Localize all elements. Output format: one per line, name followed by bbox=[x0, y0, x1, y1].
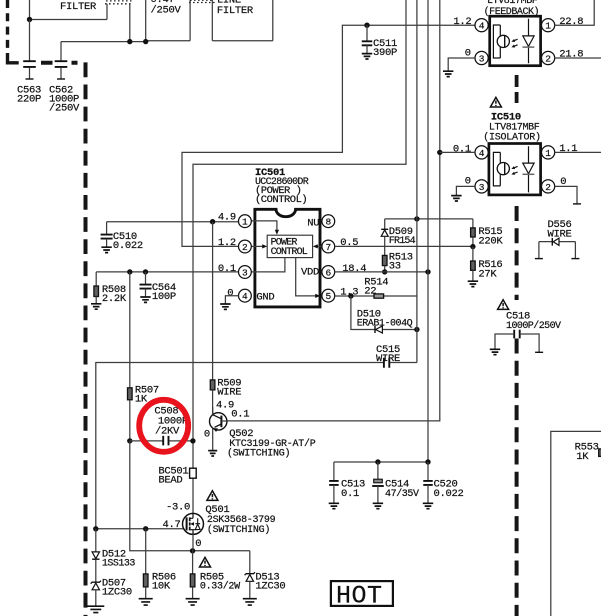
svg-text:0.022: 0.022 bbox=[113, 240, 143, 252]
svg-text:22: 22 bbox=[364, 285, 376, 297]
resistor R515 bbox=[472, 219, 474, 228]
isolation barrier dashed line (top left vertical) bbox=[6, 0, 9, 50]
svg-text:4: 4 bbox=[479, 21, 485, 32]
svg-text:(ISOLATOR): (ISOLATOR) bbox=[483, 132, 541, 144]
svg-text:0.1: 0.1 bbox=[453, 143, 471, 155]
isolation barrier corner piece bbox=[8, 53, 19, 63]
capacitor C564 bbox=[145, 272, 147, 285]
svg-text:0.1: 0.1 bbox=[231, 408, 249, 420]
svg-text:3: 3 bbox=[242, 267, 248, 278]
ground C518 bbox=[490, 349, 500, 354]
svg-text:1.2: 1.2 bbox=[453, 16, 471, 28]
wire opto pin2 to right edge bbox=[555, 57, 601, 59]
pin 7 IC501 bbox=[322, 240, 335, 253]
junction dot R515/R516 (pin7 node) bbox=[470, 244, 475, 249]
warning triangle C518 bbox=[498, 300, 509, 310]
svg-text:0: 0 bbox=[195, 538, 201, 550]
ground C513 bbox=[329, 503, 339, 508]
inner wire pin2 arrow into block bbox=[251, 245, 263, 247]
wire IC501 pin1 net horizontal bbox=[107, 221, 239, 223]
svg-text:0.022: 0.022 bbox=[434, 488, 464, 500]
junction dot gate net R506 bbox=[143, 526, 148, 531]
junction dot bus4 at IC510 pin4 bbox=[437, 150, 442, 155]
svg-text:27K: 27K bbox=[478, 269, 497, 281]
wire gate net horizontal bbox=[96, 528, 187, 530]
svg-text:/2KV: /2KV bbox=[155, 426, 180, 438]
capacitor C513 bbox=[333, 462, 335, 481]
transistor Q502 (NPN switching) bbox=[210, 413, 227, 430]
ground R516 bbox=[468, 281, 478, 286]
wire pin1 net down to R509 bbox=[212, 222, 214, 380]
isolation barrier dashed line (below C518) bbox=[515, 339, 519, 616]
zener diode D513 bbox=[249, 551, 251, 574]
isolation barrier dashed line (horizontal jog) bbox=[41, 61, 78, 65]
ground C520 bbox=[423, 503, 433, 508]
wire IC501 pin3 net horizontal bbox=[96, 271, 238, 273]
pin 3 opto feedback bbox=[475, 51, 488, 64]
svg-text:2: 2 bbox=[545, 182, 551, 193]
warning triangle R505 bbox=[200, 557, 211, 567]
capacitor C562 (Y-cap) bbox=[60, 42, 62, 62]
svg-text:(CONTROL): (CONTROL) bbox=[255, 194, 307, 206]
optocoupler IC (FEEDBACK) body bbox=[490, 16, 541, 65]
wire secondary sense node y462 bbox=[334, 461, 428, 463]
transistor Q501 (MOSFET switching) bbox=[183, 513, 204, 534]
wire bus1 lower segment to Q501 drain bbox=[192, 441, 194, 514]
svg-text:0.1: 0.1 bbox=[218, 263, 236, 275]
svg-text:1SS133: 1SS133 bbox=[102, 559, 136, 570]
coil (dotted) top left bbox=[105, 1, 133, 4]
junction dot C508 right bbox=[190, 438, 195, 443]
svg-text:1.2: 1.2 bbox=[218, 237, 236, 249]
resistor R553 (cut at edge) bbox=[599, 449, 601, 457]
svg-text:ERAB1-004Q: ERAB1-004Q bbox=[357, 319, 413, 330]
wire from line filter to opto feedback pin4 (node A) bbox=[182, 25, 475, 246]
resistor R507 bbox=[128, 388, 133, 400]
pin 6 IC501 bbox=[322, 266, 335, 279]
capacitor C520 bbox=[427, 462, 429, 481]
pin 4 opto feedback bbox=[475, 19, 488, 32]
phototransistor inside (IC510) bbox=[493, 152, 500, 186]
wire opto pin3 to ground bbox=[448, 58, 475, 71]
pin 8 IC501 bbox=[322, 215, 335, 228]
junction dot C514 bbox=[375, 459, 380, 464]
resistor R516 bbox=[472, 247, 474, 261]
capacitor C515 (horizontal plates) bbox=[384, 358, 389, 368]
capacitor box 0.47/250V (cut off at top) bbox=[146, 0, 190, 41]
pin 2 IC501 bbox=[239, 240, 252, 253]
resistor R505 bbox=[192, 551, 194, 574]
svg-text:3: 3 bbox=[479, 182, 485, 193]
resistor R514 (horizontal) bbox=[374, 294, 384, 298]
capacitor C518 (Y-cap horizontal) bbox=[514, 330, 520, 339]
LED inside (FEEDBACK) bbox=[528, 19, 530, 63]
svg-text:220P: 220P bbox=[17, 93, 41, 105]
light arrows (IC510) bbox=[514, 166, 518, 173]
wire Q501 source down bbox=[192, 534, 194, 551]
svg-text:1: 1 bbox=[242, 217, 248, 228]
svg-text:HOT: HOT bbox=[336, 581, 383, 610]
svg-text:-3.0: -3.0 bbox=[166, 502, 190, 514]
junction dot AC node at cap box bbox=[143, 39, 148, 44]
junction dot pin8 net at bus2 bbox=[414, 216, 419, 221]
svg-text:4.7: 4.7 bbox=[163, 519, 181, 531]
wire IC510 pin4 to bus4 bbox=[440, 151, 475, 153]
junction dot D510 at bus2 bbox=[414, 327, 419, 332]
warning triangle Q501 bbox=[207, 491, 218, 501]
wire bus3 from top to C513 node bbox=[427, 0, 429, 462]
junction dot pin6 at bus3 bbox=[425, 269, 430, 274]
svg-text:GND: GND bbox=[256, 292, 274, 304]
resistor R508 bbox=[95, 272, 97, 286]
svg-text:10K: 10K bbox=[152, 580, 171, 592]
svg-text:2: 2 bbox=[242, 242, 248, 253]
svg-text:22.8: 22.8 bbox=[559, 16, 583, 28]
svg-text:BEAD: BEAD bbox=[158, 475, 182, 487]
box R553 (bottom right, cut off) bbox=[551, 431, 601, 616]
junction dot C564 tap bbox=[143, 269, 148, 274]
resistor R513 bbox=[382, 255, 387, 265]
pin 5 IC501 bbox=[322, 289, 335, 302]
svg-text:0: 0 bbox=[227, 287, 233, 299]
svg-text:1K: 1K bbox=[576, 451, 589, 463]
svg-text:6: 6 bbox=[325, 267, 331, 278]
isolation barrier dashed line (right vertical lower) bbox=[515, 206, 519, 300]
svg-text:WIRE: WIRE bbox=[217, 387, 241, 399]
wire R507 chain down bbox=[129, 272, 131, 388]
svg-text:7: 7 bbox=[325, 242, 331, 253]
junction dot R507 tap bbox=[127, 269, 132, 274]
ground C510 bbox=[101, 247, 111, 252]
svg-text:/250V: /250V bbox=[151, 4, 182, 16]
HOT label box bbox=[331, 581, 393, 606]
ground C514 bbox=[373, 503, 383, 508]
red highlight circle around C508 bbox=[139, 400, 188, 452]
svg-text:8: 8 bbox=[325, 217, 331, 228]
terminal tick D556 left bbox=[535, 258, 543, 260]
capacitor C510 bbox=[106, 222, 108, 235]
LINE FILTER box (cut off at top) bbox=[212, 0, 272, 41]
wire IC501 pin7 to R515/R516 node bbox=[335, 245, 473, 247]
svg-text:1.1: 1.1 bbox=[559, 143, 577, 155]
line filter box (top left, cut off) bbox=[30, 0, 108, 20]
light arrows (FEEDBACK) bbox=[514, 39, 518, 46]
capacitor C563 (Y-cap) bbox=[29, 20, 31, 62]
svg-text:(SWITCHING): (SWITCHING) bbox=[227, 448, 290, 460]
pin 3 IC510 bbox=[475, 180, 488, 193]
pin 2 opto feedback bbox=[542, 51, 555, 64]
pin 4 IC501 bbox=[239, 289, 252, 302]
junction dot Q501 source bbox=[190, 548, 195, 553]
ground IC501 pin4 bbox=[220, 304, 230, 309]
diode D510 bbox=[374, 326, 376, 333]
svg-text:FILTER: FILTER bbox=[60, 1, 97, 13]
wire IC510 pin1 to right edge bbox=[555, 151, 601, 153]
wire bus4 from top to Q502 base bbox=[227, 0, 440, 421]
resistor R509 bbox=[210, 380, 215, 390]
pin 1 IC510 bbox=[542, 146, 555, 159]
svg-text:3: 3 bbox=[479, 53, 485, 64]
optocoupler IC510 body bbox=[489, 144, 541, 195]
diode D556 jumper bbox=[539, 241, 576, 243]
svg-text:FR154: FR154 bbox=[389, 236, 416, 247]
pin 1 IC501 bbox=[239, 215, 252, 228]
svg-text:0: 0 bbox=[204, 428, 210, 440]
svg-text:4: 4 bbox=[242, 291, 248, 302]
svg-text:1ZC30: 1ZC30 bbox=[102, 587, 132, 599]
svg-text:CONTROL: CONTROL bbox=[271, 247, 308, 258]
junction dot pin1 net bbox=[210, 219, 215, 224]
inner wire pin3 to block bottom bbox=[251, 258, 285, 272]
diode D512 bbox=[95, 529, 97, 552]
svg-text:WIRE: WIRE bbox=[376, 353, 400, 365]
junction dot C508 left bbox=[127, 438, 132, 443]
junction dot filter box corner bbox=[27, 17, 32, 22]
phototransistor inside (FEEDBACK) bbox=[493, 25, 500, 58]
inner wire pin1 to block with arrow bbox=[251, 221, 277, 231]
svg-text:NU: NU bbox=[307, 217, 319, 229]
ground R505 bbox=[186, 599, 200, 605]
terminal tick C518 right bbox=[535, 351, 543, 353]
svg-text:1ZC30: 1ZC30 bbox=[255, 580, 285, 592]
wire IC510 pin2 stub bbox=[555, 186, 577, 204]
svg-text:100P: 100P bbox=[152, 291, 176, 303]
wire pin8 net (D509 top) horizontal bbox=[385, 218, 473, 220]
svg-text:FILTER: FILTER bbox=[217, 5, 254, 17]
svg-text:220K: 220K bbox=[478, 236, 503, 248]
inner wire pin7 arrow into block bbox=[317, 245, 322, 247]
svg-text:47/35V: 47/35V bbox=[385, 488, 419, 500]
diode D509 bbox=[384, 219, 386, 229]
terminal tick IC510 pin2 bbox=[573, 203, 581, 205]
wire IC501 pin5 with R514 bbox=[335, 295, 417, 297]
pin 3 IC501 bbox=[239, 266, 252, 279]
svg-text:VDD: VDD bbox=[301, 267, 319, 279]
wire bus1 from top to IC501 pin2 net bbox=[193, 0, 406, 441]
svg-text:/250V: /250V bbox=[49, 102, 80, 114]
svg-text:4: 4 bbox=[479, 148, 485, 159]
terminal tick D556 right bbox=[571, 258, 579, 260]
inner wire block to pin5 with arrow bbox=[296, 258, 316, 296]
svg-text:4.9: 4.9 bbox=[218, 211, 236, 223]
ground C564 bbox=[140, 297, 150, 302]
ground opto pin3 bbox=[443, 71, 453, 76]
inner block POWER CONTROL bbox=[267, 235, 312, 257]
wire AC node horizontal y41.6 bbox=[61, 41, 146, 43]
wire from coil down to node bbox=[129, 4, 131, 42]
junction dot coil/AC node bbox=[127, 39, 132, 44]
ground R506 bbox=[139, 599, 153, 605]
junction dot pin5 node bbox=[348, 293, 353, 298]
svg-text:(SWITCHING): (SWITCHING) bbox=[207, 524, 270, 536]
svg-text:5: 5 bbox=[325, 291, 331, 302]
ground IC510 pin3 bbox=[451, 196, 461, 201]
junction dot gate net left (D512) bbox=[93, 526, 98, 531]
wire IC501 pin6 horizontal bbox=[335, 271, 428, 273]
svg-text:21.8: 21.8 bbox=[559, 49, 583, 61]
ground D507 bbox=[87, 606, 104, 612]
capacitor C508 bbox=[130, 440, 163, 442]
pin 1 opto feedback bbox=[542, 19, 555, 32]
svg-text:1: 1 bbox=[545, 148, 551, 159]
junction dot C511 tap bbox=[364, 23, 369, 28]
svg-text:1K: 1K bbox=[135, 394, 148, 406]
ground R508 bbox=[91, 304, 101, 309]
svg-text:1: 1 bbox=[545, 21, 551, 32]
capacitor C514 (electrolytic) bbox=[377, 462, 379, 479]
junction dot R513 at pin6 wire bbox=[382, 269, 387, 274]
op-amp U1 IC501 body (POWER CONTROL chip) bbox=[255, 209, 320, 307]
wire Q502 emitter to ground bbox=[212, 428, 214, 450]
svg-text:0.33/2W: 0.33/2W bbox=[200, 580, 240, 592]
svg-text:0.1: 0.1 bbox=[341, 488, 359, 500]
isolation barrier dashed line (right vertical upper) bbox=[515, 75, 519, 103]
wire IC501 pin4 to ground bbox=[225, 296, 238, 304]
resistor R506 bbox=[145, 529, 147, 574]
ferrite bead BC501 bbox=[190, 468, 197, 478]
junction dot C520/bus3 bbox=[425, 459, 430, 464]
ground C511 bbox=[362, 54, 372, 59]
wire opto pin1 up to edge bbox=[555, 0, 595, 25]
svg-text:33: 33 bbox=[389, 261, 401, 273]
wire D510 loop bbox=[351, 296, 417, 330]
isolation barrier dashed line (left vertical) bbox=[84, 62, 88, 616]
svg-text:2: 2 bbox=[545, 53, 551, 64]
svg-text:390P: 390P bbox=[373, 47, 397, 59]
warning triangle IC510 bbox=[490, 97, 501, 107]
svg-text:18.4: 18.4 bbox=[342, 263, 366, 275]
capacitor C511 bbox=[366, 25, 368, 41]
pin 2 IC510 bbox=[542, 180, 555, 193]
coil (dotted) between boxes bbox=[189, 0, 215, 2]
zener diode D507 bbox=[91, 581, 101, 584]
wire R507 chain to Q501 source node bbox=[130, 441, 250, 551]
LED inside (IC510) bbox=[528, 146, 530, 192]
pin 4 IC510 bbox=[475, 146, 488, 159]
ground Q502 emitter bbox=[208, 451, 217, 456]
wire IC510 pin3 to ground bbox=[456, 186, 475, 195]
wire bus2 from top to C515 corner bbox=[416, 0, 418, 363]
svg-text:2.2K: 2.2K bbox=[102, 293, 127, 305]
ground D513 bbox=[243, 599, 257, 605]
wire C515 net horizontal bbox=[96, 363, 417, 529]
